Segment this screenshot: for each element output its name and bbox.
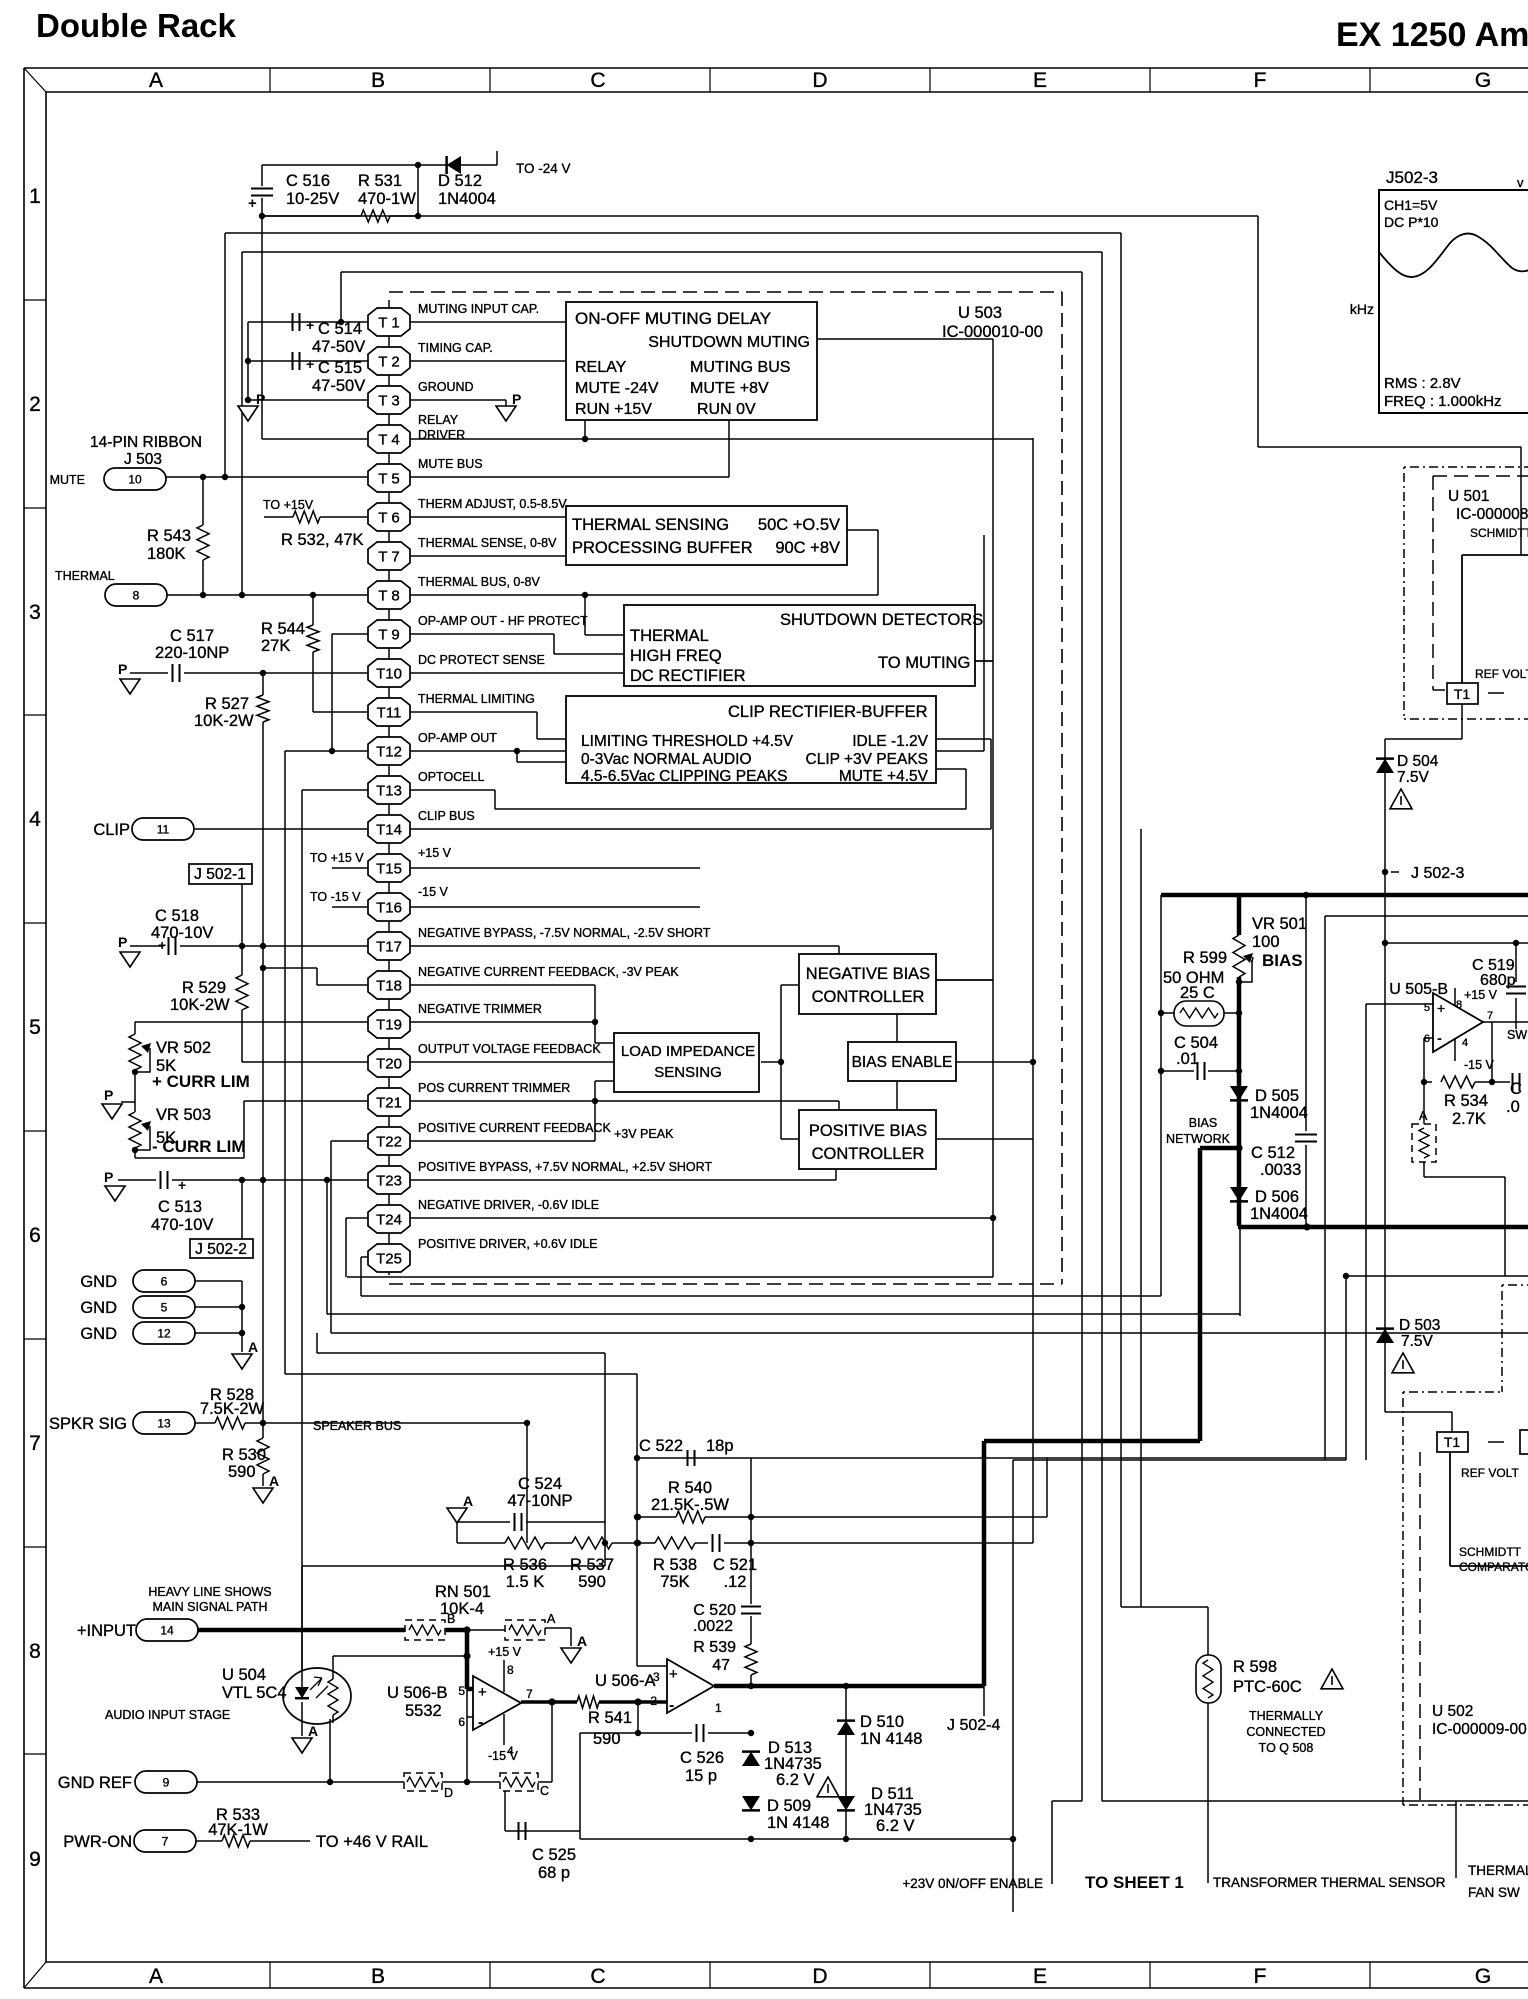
- svg-text:T 7: T 7: [378, 549, 399, 566]
- svg-text:50C +O.5V: 50C +O.5V: [758, 516, 840, 534]
- svg-text:C 513: C 513: [158, 1198, 202, 1216]
- svg-text:THERMAL: THERMAL: [55, 569, 115, 583]
- svg-text:AUDIO INPUT STAGE: AUDIO INPUT STAGE: [105, 1708, 230, 1722]
- svg-text:A: A: [463, 1493, 473, 1509]
- svg-text:D 504: D 504: [1397, 753, 1439, 770]
- svg-text:POSITIVE CURRENT FEEDBACK: POSITIVE CURRENT FEEDBACK: [418, 1121, 612, 1135]
- svg-text:D 506: D 506: [1255, 1188, 1299, 1206]
- svg-text:E: E: [1033, 69, 1047, 92]
- svg-text:THERMALLY: THERMALLY: [1249, 1709, 1324, 1723]
- svg-text:.12: .12: [724, 1573, 747, 1591]
- svg-text:10K-4: 10K-4: [440, 1600, 484, 1618]
- svg-text:47-10NP: 47-10NP: [507, 1492, 572, 1510]
- svg-text:C: C: [540, 1784, 549, 1798]
- svg-text:7: 7: [162, 1835, 169, 1849]
- svg-text:T12: T12: [376, 744, 402, 761]
- svg-text:470-1W: 470-1W: [358, 190, 416, 208]
- svg-text:MUTE -24V: MUTE -24V: [575, 380, 659, 397]
- svg-text:HIGH FREQ: HIGH FREQ: [630, 647, 722, 665]
- svg-text:R 538: R 538: [653, 1556, 697, 1574]
- svg-text:Double Rack: Double Rack: [36, 7, 237, 44]
- svg-text:T17: T17: [376, 939, 402, 956]
- svg-text:C: C: [590, 69, 605, 92]
- svg-text:MUTE BUS: MUTE BUS: [418, 457, 483, 471]
- svg-text:T25: T25: [376, 1251, 402, 1268]
- svg-text:-: -: [669, 1697, 674, 1714]
- svg-text:RELAY: RELAY: [575, 359, 627, 376]
- svg-text:A: A: [577, 1633, 587, 1649]
- svg-text:C: C: [590, 1965, 605, 1988]
- svg-text:6: 6: [458, 1715, 465, 1729]
- svg-text:D 509: D 509: [767, 1797, 811, 1815]
- svg-text:6: 6: [29, 1224, 41, 1247]
- svg-text:4: 4: [1462, 1037, 1468, 1049]
- svg-text:220-10NP: 220-10NP: [155, 644, 229, 662]
- svg-text:VTL 5C4: VTL 5C4: [222, 1684, 287, 1702]
- svg-text:THERMAL LIMITING: THERMAL LIMITING: [418, 692, 535, 706]
- svg-text:CONTROLLER: CONTROLLER: [812, 988, 925, 1006]
- svg-text:REF VOLT: REF VOLT: [1461, 1466, 1519, 1480]
- svg-text:A: A: [1419, 1109, 1428, 1123]
- svg-text:5: 5: [161, 1301, 168, 1315]
- svg-text:680p: 680p: [1480, 972, 1516, 989]
- svg-text:8: 8: [133, 589, 140, 603]
- svg-text:.0033: .0033: [1260, 1161, 1301, 1179]
- svg-text:SCHMIDTT: SCHMIDTT: [1470, 526, 1528, 540]
- svg-text:590: 590: [578, 1573, 606, 1591]
- svg-text:P: P: [104, 1169, 113, 1185]
- svg-text:-: -: [478, 1714, 483, 1731]
- svg-text:470-10V: 470-10V: [151, 1216, 213, 1234]
- svg-text:F: F: [1254, 69, 1267, 92]
- svg-text:13: 13: [157, 1417, 171, 1431]
- svg-text:T15: T15: [376, 861, 402, 878]
- svg-text:OPTOCELL: OPTOCELL: [418, 770, 485, 784]
- svg-text:R 536: R 536: [503, 1556, 547, 1574]
- svg-text:14-PIN RIBBON: 14-PIN RIBBON: [90, 434, 202, 451]
- svg-text:GND: GND: [80, 1299, 117, 1317]
- svg-text:MAIN SIGNAL PATH: MAIN SIGNAL PATH: [152, 1600, 267, 1614]
- svg-text:C 524: C 524: [518, 1475, 562, 1493]
- svg-text:T 8: T 8: [378, 588, 399, 605]
- svg-text:RUN 0V: RUN 0V: [697, 401, 756, 418]
- svg-text:+: +: [478, 1684, 487, 1701]
- svg-text:+15 V: +15 V: [488, 1645, 522, 1659]
- svg-text:1N4004: 1N4004: [1250, 1205, 1308, 1223]
- svg-text:F: F: [1254, 1965, 1267, 1988]
- svg-text:+: +: [306, 356, 314, 372]
- svg-text:C 516: C 516: [286, 172, 330, 190]
- svg-text:68 p: 68 p: [538, 1864, 570, 1882]
- svg-text:590: 590: [228, 1463, 256, 1481]
- svg-text:SENSING: SENSING: [654, 1064, 722, 1081]
- svg-text:TO -15 V: TO -15 V: [310, 890, 361, 904]
- svg-text:CLIP RECTIFIER-BUFFER: CLIP RECTIFIER-BUFFER: [728, 703, 928, 721]
- svg-text:SHUTDOWN DETECTORS: SHUTDOWN DETECTORS: [780, 611, 983, 629]
- svg-text:A: A: [149, 1965, 163, 1988]
- svg-text:GROUND: GROUND: [418, 380, 474, 394]
- svg-text:NEGATIVE BYPASS, -7.5V NORMAL,: NEGATIVE BYPASS, -7.5V NORMAL, -2.5V SHO…: [418, 926, 711, 940]
- svg-text:C 525: C 525: [532, 1846, 576, 1864]
- svg-text:90C +8V: 90C +8V: [775, 539, 840, 557]
- svg-text:v: v: [1517, 175, 1524, 190]
- svg-text:47: 47: [712, 1657, 730, 1674]
- svg-text:OP-AMP OUT - HF PROTECT: OP-AMP OUT - HF PROTECT: [418, 614, 588, 628]
- svg-text:.0: .0: [1506, 1098, 1520, 1116]
- svg-text:5532: 5532: [405, 1702, 442, 1720]
- svg-text:5: 5: [458, 1684, 465, 1698]
- svg-text:GND REF: GND REF: [58, 1774, 132, 1792]
- svg-text:T14: T14: [376, 822, 402, 839]
- svg-text:MUTE: MUTE: [50, 473, 85, 487]
- svg-text:C 517: C 517: [170, 627, 214, 645]
- svg-text:THERMAL SENSING: THERMAL SENSING: [572, 516, 729, 534]
- svg-text:TO -24 V: TO -24 V: [516, 161, 571, 176]
- svg-text:P: P: [256, 391, 265, 407]
- svg-text:J 502-2: J 502-2: [195, 1241, 247, 1258]
- svg-text:2.7K: 2.7K: [1452, 1110, 1486, 1128]
- svg-text:EX 1250 Amp: EX 1250 Amp: [1336, 16, 1528, 54]
- svg-text:-15 V: -15 V: [418, 885, 449, 899]
- svg-text:CLIP: CLIP: [93, 821, 130, 839]
- svg-text:6: 6: [161, 1275, 168, 1289]
- svg-text:D: D: [444, 1786, 453, 1800]
- svg-text:GND: GND: [80, 1325, 117, 1343]
- svg-text:+: +: [669, 1666, 678, 1683]
- svg-text:R 532, 47K: R 532, 47K: [281, 531, 364, 549]
- svg-text:100: 100: [1252, 933, 1280, 951]
- svg-text:CH1=5V: CH1=5V: [1384, 197, 1438, 213]
- svg-text:T22: T22: [376, 1134, 402, 1151]
- svg-text:6.2 V: 6.2 V: [776, 1771, 815, 1789]
- svg-text:12: 12: [157, 1327, 171, 1341]
- svg-text:7: 7: [1487, 1010, 1493, 1022]
- svg-text:+: +: [1437, 1000, 1445, 1016]
- svg-text:47-50V: 47-50V: [312, 338, 365, 356]
- svg-text:T 4: T 4: [378, 432, 399, 449]
- svg-text:COMPARATOR: COMPARATOR: [1459, 1560, 1528, 1574]
- svg-text:T10: T10: [376, 666, 402, 683]
- svg-text:3: 3: [653, 1670, 660, 1684]
- svg-text:FREQ : 1.000kHz: FREQ : 1.000kHz: [1384, 393, 1502, 410]
- svg-text:11: 11: [157, 823, 170, 837]
- svg-text:BIAS ENABLE: BIAS ENABLE: [852, 1054, 953, 1071]
- svg-text:C 522: C 522: [639, 1437, 683, 1455]
- svg-text:HEAVY LINE SHOWS: HEAVY LINE SHOWS: [148, 1585, 271, 1599]
- svg-text:LIMITING THRESHOLD +4.5V: LIMITING THRESHOLD +4.5V: [581, 733, 794, 750]
- svg-text:REF VOLT: REF VOLT: [1475, 667, 1528, 681]
- svg-text:ON-OFF MUTING DELAY: ON-OFF MUTING DELAY: [575, 309, 771, 328]
- svg-text:8: 8: [507, 1663, 514, 1677]
- svg-text:D 510: D 510: [860, 1713, 904, 1731]
- svg-text:T1: T1: [1454, 686, 1471, 702]
- svg-text:CLIP BUS: CLIP BUS: [418, 809, 475, 823]
- svg-text:FAN SW: FAN SW: [1468, 1885, 1520, 1900]
- svg-text:MUTING BUS: MUTING BUS: [690, 359, 790, 376]
- svg-text:DC PROTECT SENSE: DC PROTECT SENSE: [418, 653, 545, 667]
- svg-text:TRANSFORMER THERMAL SENSOR: TRANSFORMER THERMAL SENSOR: [1213, 1875, 1446, 1890]
- svg-text:7.5V: 7.5V: [1397, 769, 1430, 786]
- svg-text:CLIP +3V PEAKS: CLIP +3V PEAKS: [806, 751, 929, 768]
- svg-text:POSITIVE BIAS: POSITIVE BIAS: [809, 1122, 927, 1140]
- svg-text:R 540: R 540: [668, 1479, 712, 1497]
- svg-text:7: 7: [29, 1432, 41, 1455]
- svg-text:7.5V: 7.5V: [1401, 1333, 1434, 1350]
- svg-text:VR 501: VR 501: [1252, 915, 1307, 933]
- svg-text:THERMAL SENSE, 0-8V: THERMAL SENSE, 0-8V: [418, 536, 557, 550]
- svg-text:R 537: R 537: [570, 1556, 614, 1574]
- svg-text:A: A: [149, 69, 163, 92]
- svg-text:1N4004: 1N4004: [1250, 1104, 1308, 1122]
- svg-text:+: +: [158, 937, 166, 953]
- svg-text:D 503: D 503: [1399, 1317, 1440, 1334]
- svg-text:B: B: [371, 1965, 385, 1988]
- svg-text:BIAS: BIAS: [1262, 951, 1303, 970]
- svg-text:RMS : 2.8V: RMS : 2.8V: [1384, 375, 1461, 392]
- svg-text:75K: 75K: [660, 1573, 689, 1591]
- svg-text:R 599: R 599: [1183, 949, 1227, 967]
- svg-text:P: P: [512, 391, 521, 407]
- svg-text:4: 4: [29, 808, 41, 831]
- svg-text:THERMAL BUS, 0-8V: THERMAL BUS, 0-8V: [418, 575, 540, 589]
- svg-text:8: 8: [29, 1640, 41, 1663]
- svg-text:THERMAL: THERMAL: [1468, 1863, 1528, 1878]
- svg-text:C 512: C 512: [1251, 1144, 1295, 1162]
- svg-text:kHz: kHz: [1350, 301, 1374, 317]
- svg-text:G: G: [1475, 69, 1491, 92]
- svg-text:SCHMIDTT: SCHMIDTT: [1459, 1545, 1522, 1559]
- svg-text:J 502-3: J 502-3: [1411, 865, 1464, 882]
- svg-text:TO SHEET 1: TO SHEET 1: [1085, 1873, 1184, 1892]
- svg-text:SWITCH: SWITCH: [1507, 1028, 1528, 1042]
- svg-text:IC-000010-00: IC-000010-00: [942, 323, 1043, 341]
- svg-text:TIMING CAP.: TIMING CAP.: [418, 341, 493, 355]
- svg-text:IC-000008-: IC-000008-: [1456, 506, 1528, 523]
- svg-text:MUTING INPUT CAP.: MUTING INPUT CAP.: [418, 302, 539, 316]
- svg-text:18p: 18p: [706, 1437, 734, 1455]
- svg-text:E: E: [1033, 1965, 1047, 1988]
- svg-text:T23: T23: [376, 1173, 402, 1190]
- svg-text:C: C: [1510, 1080, 1522, 1098]
- svg-text:T19: T19: [376, 1017, 402, 1034]
- svg-text:1N4004: 1N4004: [438, 190, 496, 208]
- svg-text:.0022: .0022: [693, 1618, 733, 1635]
- svg-text:NEGATIVE BIAS: NEGATIVE BIAS: [806, 965, 930, 983]
- svg-text:THERM ADJUST, 0.5-8.5V: THERM ADJUST, 0.5-8.5V: [418, 497, 567, 511]
- svg-text:A: A: [248, 1339, 258, 1355]
- svg-text:TO Q 508: TO Q 508: [1259, 1741, 1314, 1755]
- svg-text:.01: .01: [1176, 1050, 1199, 1068]
- svg-text:T 1: T 1: [378, 315, 399, 332]
- svg-text:NEGATIVE TRIMMER: NEGATIVE TRIMMER: [418, 1002, 542, 1016]
- svg-text:U 504: U 504: [222, 1666, 266, 1684]
- svg-text:C 514: C 514: [318, 320, 362, 338]
- svg-text:2: 2: [29, 393, 41, 416]
- svg-text:T16: T16: [376, 900, 402, 917]
- svg-text:+15 V: +15 V: [1464, 988, 1498, 1002]
- svg-text:R 543: R 543: [147, 527, 191, 545]
- svg-text:T20: T20: [376, 1056, 402, 1073]
- svg-text:T18: T18: [376, 978, 402, 995]
- svg-text:NETWORK: NETWORK: [1166, 1132, 1231, 1146]
- svg-text:-15 V: -15 V: [488, 1749, 519, 1763]
- svg-text:27K: 27K: [261, 637, 290, 655]
- svg-text:OUTPUT VOLTAGE FEEDBACK: OUTPUT VOLTAGE FEEDBACK: [418, 1042, 601, 1056]
- svg-text:+23V 0N/OFF ENABLE: +23V 0N/OFF ENABLE: [902, 1876, 1043, 1891]
- svg-text:U 505-B: U 505-B: [1389, 981, 1448, 998]
- svg-text:SHUTDOWN MUTING: SHUTDOWN MUTING: [648, 334, 810, 351]
- svg-text:R 531: R 531: [358, 172, 402, 190]
- svg-text:MUTE +4.5V: MUTE +4.5V: [839, 768, 929, 785]
- svg-text:B: B: [371, 69, 385, 92]
- svg-text:R 529: R 529: [182, 979, 226, 997]
- svg-text:47-50V: 47-50V: [312, 377, 365, 395]
- svg-text:8: 8: [1456, 999, 1462, 1011]
- svg-text:D 512: D 512: [438, 172, 482, 190]
- svg-text:T 5: T 5: [378, 471, 399, 488]
- svg-text:T 2: T 2: [378, 354, 399, 371]
- svg-text:NEGATIVE CURRENT FEEDBACK, -3V: NEGATIVE CURRENT FEEDBACK, -3V PEAK: [418, 965, 679, 979]
- svg-text:GND: GND: [80, 1273, 117, 1291]
- svg-text:RN 501: RN 501: [435, 1583, 491, 1601]
- svg-text:9: 9: [29, 1848, 41, 1871]
- svg-text:T21: T21: [376, 1095, 402, 1112]
- svg-text:1N 4148: 1N 4148: [767, 1814, 829, 1832]
- svg-text:T1: T1: [1444, 1434, 1461, 1450]
- svg-text:10: 10: [128, 473, 142, 487]
- svg-text:R 598: R 598: [1233, 1658, 1277, 1676]
- svg-text:R 530: R 530: [222, 1446, 266, 1464]
- svg-text:7: 7: [526, 1687, 533, 1701]
- svg-text:21.5K-.5W: 21.5K-.5W: [651, 1496, 729, 1514]
- svg-text:R 544: R 544: [261, 620, 305, 638]
- svg-text:A: A: [308, 1723, 318, 1739]
- svg-text:T24: T24: [376, 1212, 402, 1229]
- svg-text:1N 4148: 1N 4148: [860, 1730, 922, 1748]
- svg-text:A: A: [269, 1473, 279, 1489]
- svg-text:1: 1: [715, 1701, 722, 1715]
- svg-text:1.5 K: 1.5 K: [506, 1573, 545, 1591]
- svg-text:3: 3: [29, 601, 41, 624]
- svg-text:OP-AMP OUT: OP-AMP OUT: [418, 731, 497, 745]
- svg-text:+15 V: +15 V: [418, 846, 452, 860]
- svg-text:T 9: T 9: [378, 627, 399, 644]
- svg-text:C 518: C 518: [155, 907, 199, 925]
- svg-text:THERMAL: THERMAL: [630, 627, 709, 645]
- svg-text:A: A: [547, 1612, 556, 1626]
- svg-text:P: P: [118, 934, 127, 950]
- svg-text:T 6: T 6: [378, 510, 399, 527]
- svg-text:D: D: [812, 1965, 827, 1988]
- svg-text:10-25V: 10-25V: [286, 190, 339, 208]
- svg-text:R 539: R 539: [693, 1639, 736, 1656]
- svg-text:10K-2W: 10K-2W: [170, 996, 230, 1014]
- svg-text:TO +46 V RAIL: TO +46 V RAIL: [316, 1833, 428, 1851]
- svg-text:D 505: D 505: [1255, 1087, 1299, 1105]
- svg-text:LOAD IMPEDANCE: LOAD IMPEDANCE: [621, 1043, 755, 1060]
- svg-text:U 506-A: U 506-A: [595, 1672, 656, 1690]
- svg-text:T13: T13: [376, 783, 402, 800]
- svg-text:RUN +15V: RUN +15V: [575, 401, 652, 418]
- svg-text:180K: 180K: [147, 545, 186, 563]
- svg-text:POSITIVE BYPASS, +7.5V NORMAL,: POSITIVE BYPASS, +7.5V NORMAL, +2.5V SHO…: [418, 1160, 712, 1174]
- svg-text:6.2 V: 6.2 V: [876, 1817, 915, 1835]
- svg-text:+: +: [178, 1177, 186, 1193]
- svg-text:25 C: 25 C: [1180, 984, 1215, 1002]
- svg-text:6: 6: [1424, 1033, 1430, 1045]
- svg-text:CONTROLLER: CONTROLLER: [812, 1145, 925, 1163]
- svg-text:9: 9: [163, 1776, 170, 1790]
- svg-text:+3V PEAK: +3V PEAK: [614, 1127, 674, 1141]
- svg-text:BIAS: BIAS: [1189, 1116, 1218, 1130]
- svg-text:D: D: [812, 69, 827, 92]
- svg-text:T11: T11: [377, 705, 402, 722]
- svg-text:R 534: R 534: [1444, 1092, 1488, 1110]
- svg-text:J 503: J 503: [124, 451, 162, 468]
- svg-text:PWR-ON: PWR-ON: [63, 1833, 132, 1851]
- svg-text:-15 V: -15 V: [1464, 1058, 1495, 1072]
- svg-text:DC P*10: DC P*10: [1384, 214, 1439, 230]
- svg-text:DRIVER: DRIVER: [418, 428, 465, 442]
- svg-text:C 520: C 520: [693, 1602, 736, 1619]
- svg-text:G: G: [1475, 1965, 1491, 1988]
- svg-text:5: 5: [29, 1016, 41, 1039]
- svg-text:14: 14: [160, 1624, 174, 1638]
- svg-text:0-3Vac NORMAL AUDIO: 0-3Vac NORMAL AUDIO: [581, 751, 752, 768]
- svg-text:R 541: R 541: [588, 1709, 632, 1727]
- svg-text:PROCESSING BUFFER: PROCESSING BUFFER: [572, 539, 753, 557]
- svg-text:NEGATIVE DRIVER, -0.6V IDLE: NEGATIVE DRIVER, -0.6V IDLE: [418, 1198, 599, 1212]
- svg-text:J 502-1: J 502-1: [194, 866, 246, 883]
- svg-text:+INPUT: +INPUT: [77, 1622, 136, 1640]
- svg-text:SPEAKER BUS: SPEAKER BUS: [313, 1419, 401, 1433]
- svg-text:- CURR LIM: - CURR LIM: [152, 1137, 245, 1156]
- svg-text:TO +15 V: TO +15 V: [310, 851, 364, 865]
- svg-text:P: P: [104, 1087, 113, 1103]
- svg-text:47K-1W: 47K-1W: [208, 1821, 268, 1839]
- svg-text:IDLE -1.2V: IDLE -1.2V: [852, 733, 928, 750]
- svg-text:IC-000009-00: IC-000009-00: [1432, 1721, 1527, 1738]
- svg-text:7.5K-2W: 7.5K-2W: [200, 1400, 265, 1418]
- svg-text:10K-2W: 10K-2W: [194, 712, 254, 730]
- svg-text:U 503: U 503: [958, 304, 1002, 322]
- svg-text:VR 503: VR 503: [156, 1106, 211, 1124]
- svg-text:MUTE +8V: MUTE +8V: [690, 380, 769, 397]
- svg-text:VR 502: VR 502: [156, 1039, 211, 1057]
- svg-text:R 527: R 527: [205, 695, 249, 713]
- svg-text:C 526: C 526: [680, 1749, 724, 1767]
- svg-text:P: P: [118, 661, 127, 677]
- svg-text:+ CURR LIM: + CURR LIM: [152, 1072, 250, 1091]
- svg-text:U 501: U 501: [1448, 488, 1489, 505]
- svg-text:PTC-60C: PTC-60C: [1233, 1678, 1302, 1696]
- svg-text:U 502: U 502: [1432, 1703, 1473, 1720]
- svg-text:J 502-4: J 502-4: [947, 1717, 1000, 1734]
- svg-text:CONNECTED: CONNECTED: [1246, 1725, 1325, 1739]
- svg-text:SPKR SIG: SPKR SIG: [49, 1415, 127, 1433]
- svg-text:15 p: 15 p: [685, 1767, 717, 1785]
- svg-text:POSITIVE DRIVER, +0.6V IDLE: POSITIVE DRIVER, +0.6V IDLE: [418, 1237, 598, 1251]
- svg-text:TO MUTING: TO MUTING: [878, 654, 970, 672]
- svg-text:+: +: [306, 317, 314, 333]
- svg-text:DC RECTIFIER: DC RECTIFIER: [630, 667, 746, 685]
- svg-text:TO +15V: TO +15V: [263, 498, 314, 512]
- svg-text:-: -: [1437, 1030, 1442, 1047]
- svg-text:POS CURRENT TRIMMER: POS CURRENT TRIMMER: [418, 1081, 570, 1095]
- svg-text:T 3: T 3: [378, 393, 399, 410]
- svg-text:C 515: C 515: [318, 359, 362, 377]
- svg-text:U 506-B: U 506-B: [387, 1684, 448, 1702]
